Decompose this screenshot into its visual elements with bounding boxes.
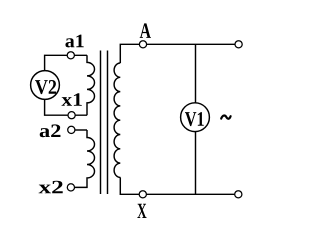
winding secondary 1 (a1-x1)	[87, 55, 95, 115]
voltmeter V2 circle	[31, 71, 60, 100]
label A	[140, 23, 151, 38]
winding primary (A-X)	[114, 63, 120, 177]
label x2	[39, 181, 63, 194]
label x1	[61, 93, 81, 106]
terminal right top	[235, 41, 242, 48]
wire V1 branch	[195, 44, 197, 194]
wire top A row	[120, 44, 234, 63]
label a1	[65, 35, 83, 48]
voltmeter V1 circle	[181, 103, 210, 132]
wire loop a1 to V2 to x1	[45, 55, 87, 115]
terminal a1	[67, 52, 74, 59]
voltmeter V2 label	[35, 80, 56, 94]
label a2	[40, 124, 61, 137]
terminal A	[139, 41, 146, 48]
wire a2 to winding 2	[71, 129, 87, 131]
AC tilde symbol	[221, 115, 230, 118]
transformer core	[101, 51, 108, 195]
terminal a2	[68, 126, 75, 133]
terminal x2	[67, 184, 74, 191]
wire bottom X row	[120, 177, 234, 194]
label X	[137, 204, 146, 218]
terminal right bottom	[235, 191, 242, 198]
winding secondary 2 (a2-x2)	[71, 130, 95, 187]
voltmeter V1 label	[185, 112, 204, 126]
terminal X	[139, 191, 146, 198]
terminal x1	[68, 112, 75, 119]
